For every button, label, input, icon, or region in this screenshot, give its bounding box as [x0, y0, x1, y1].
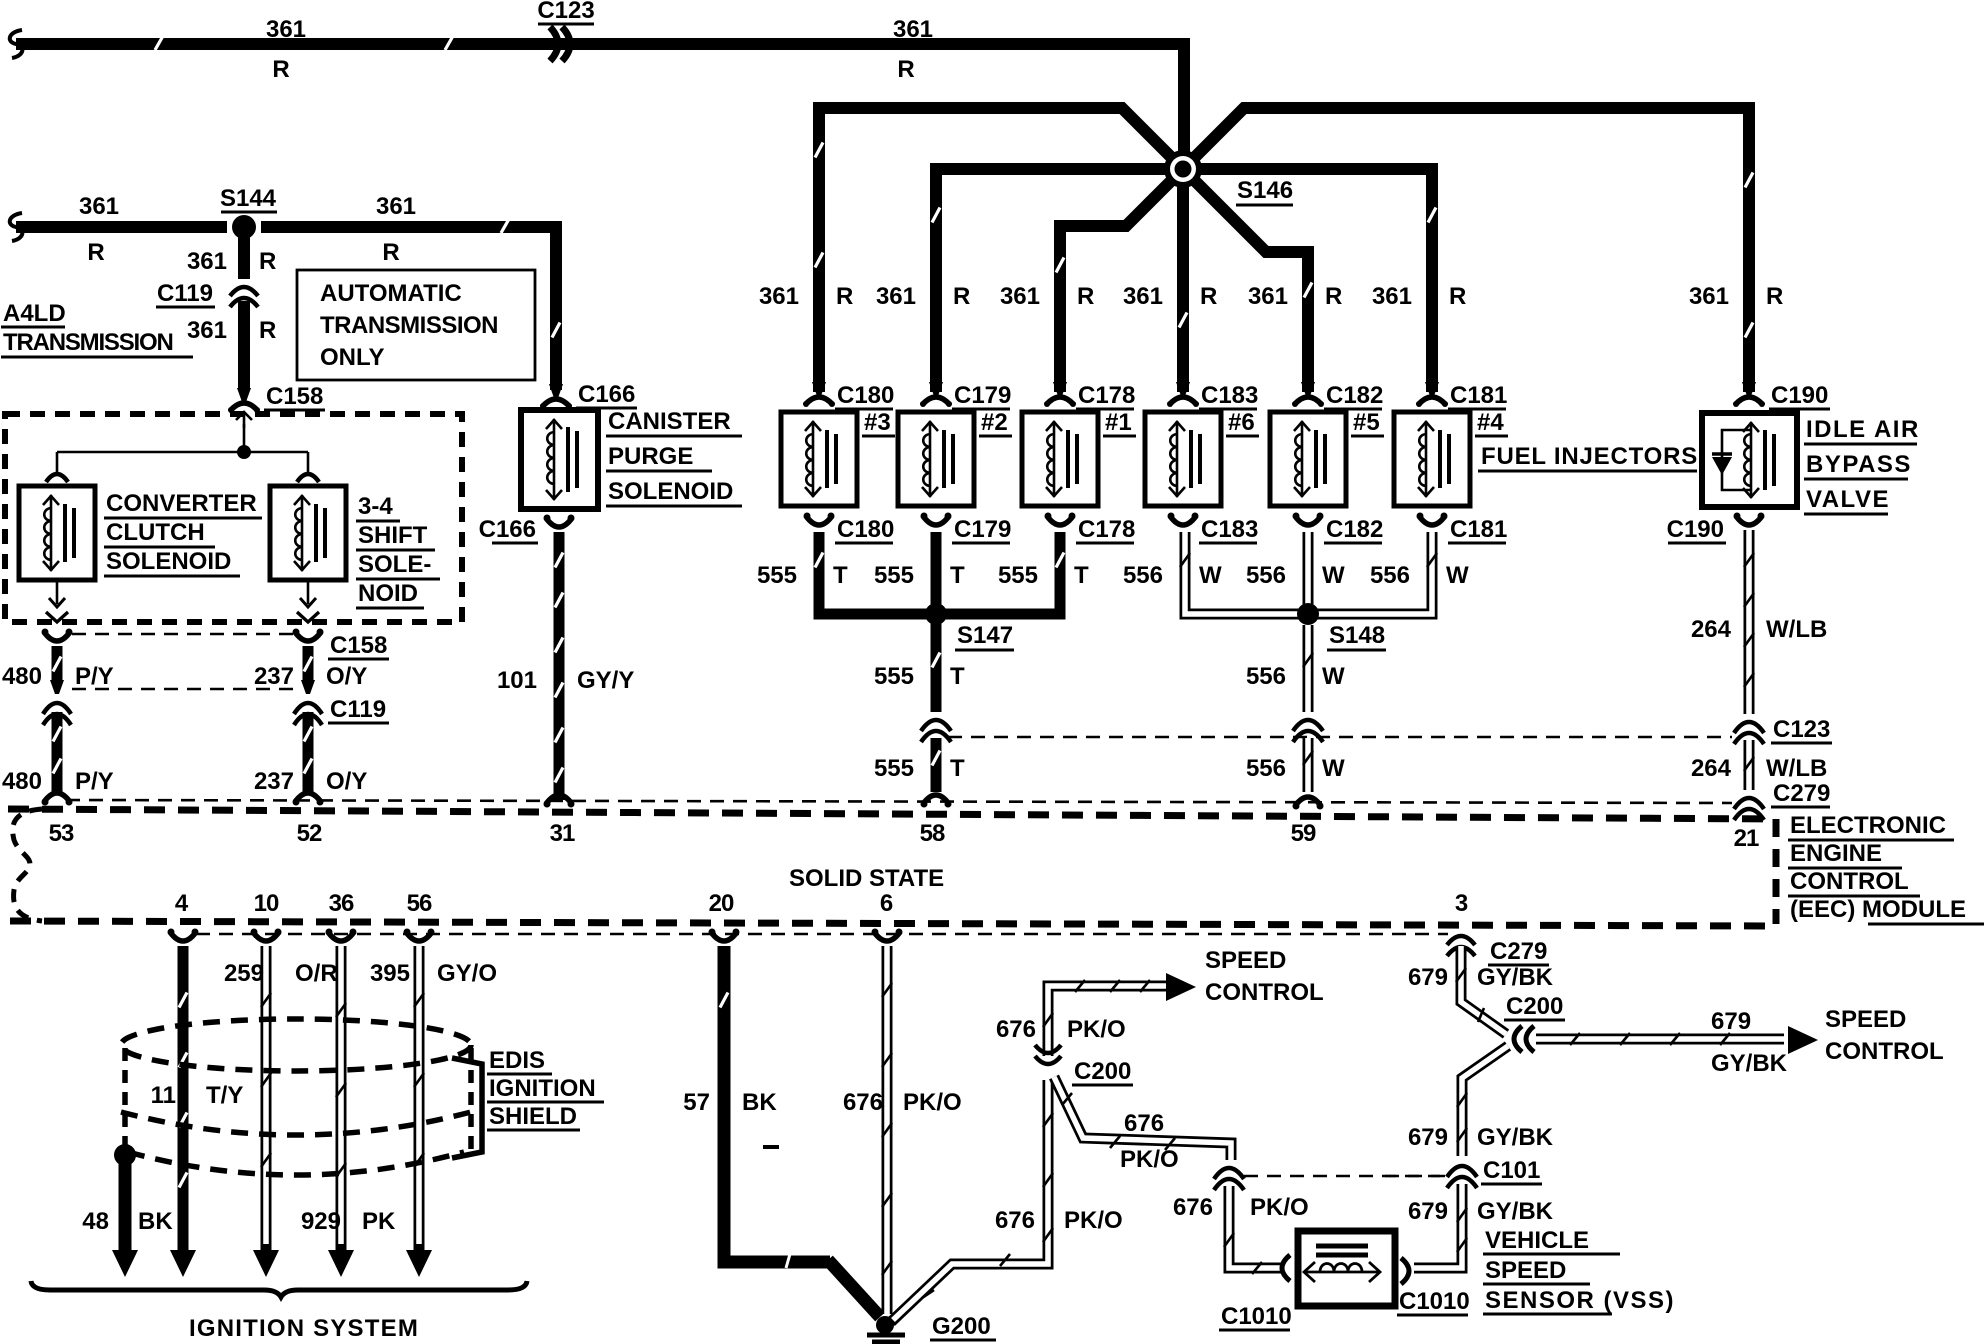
- label 929: [301, 1208, 341, 1235]
- label T mid: [950, 663, 965, 690]
- label TRANSMISSION (note): [320, 312, 498, 339]
- EDIS ignition shield top ellipse: [121, 1019, 471, 1071]
- wire 679 GY/BK from pin 3 to C200: [1456, 946, 1506, 1034]
- label S146: [1236, 177, 1293, 205]
- svg-text:237: 237: [254, 768, 294, 795]
- A4LD transmission dashed box: [5, 414, 462, 622]
- label 361 on drop #5d: [1248, 283, 1288, 310]
- label 556 mid: [1246, 663, 1286, 690]
- svg-text:C279: C279: [1773, 780, 1830, 807]
- label ONLY: [320, 344, 384, 371]
- label 361 on drop #3d: [759, 283, 799, 310]
- EDIS ignition shield right side: [468, 1048, 474, 1158]
- svg-text:G200: G200: [932, 1313, 991, 1340]
- connector at EEC pin 10: [251, 929, 282, 942]
- svg-text:264: 264: [1691, 755, 1732, 782]
- svg-text:101: 101: [497, 667, 537, 694]
- svg-text:T: T: [950, 663, 965, 690]
- svg-text:BK: BK: [138, 1208, 173, 1235]
- wire 556 bus (injectors 6-5-4): [1180, 532, 1437, 614]
- label SPEED (VSS): [1483, 1257, 1590, 1284]
- label #3 injector: [862, 409, 895, 436]
- label R right of S144: [382, 239, 399, 266]
- svg-text:T: T: [833, 562, 848, 589]
- svg-text:SHIELD: SHIELD: [489, 1103, 577, 1130]
- EEC module bottom border (dashed): [10, 921, 1776, 926]
- svg-text:3: 3: [1455, 890, 1468, 917]
- svg-text:556: 556: [1370, 562, 1410, 589]
- label 556 at x1185: [1123, 562, 1163, 589]
- svg-text:GY/Y: GY/Y: [577, 667, 634, 694]
- wire 361 R from C119 to C158: [238, 301, 250, 390]
- label #1 injector: [1103, 409, 1136, 436]
- wire S146 NW branch to injector #3: [815, 108, 1183, 392]
- arrow to speed control (middle): [1166, 973, 1196, 1001]
- canister purge solenoid box: [521, 410, 598, 509]
- svg-text:GY/BK: GY/BK: [1477, 964, 1554, 991]
- label 555 at x1060: [998, 562, 1038, 589]
- label R on drop #3d: [836, 283, 853, 310]
- wire 57 BK: [720, 946, 880, 1317]
- svg-text:679: 679: [1408, 1198, 1448, 1225]
- label C200 (middle): [1072, 1058, 1133, 1085]
- label GY/BK (upper): [1477, 964, 1554, 991]
- svg-text:C182: C182: [1326, 382, 1383, 409]
- svg-text:PK: PK: [362, 1208, 396, 1235]
- label C166 top: [576, 381, 637, 408]
- VSS internal bars: [1316, 1246, 1368, 1255]
- svg-text:C200: C200: [1074, 1058, 1131, 1085]
- label TRANSMISSION: [1, 329, 193, 357]
- svg-text:R: R: [1325, 283, 1342, 310]
- label C123 (top): [537, 0, 594, 24]
- connector C1010 left of VSS: [1282, 1255, 1290, 1281]
- svg-text:58: 58: [920, 820, 945, 847]
- connector C119 on 361 wire: [230, 287, 258, 307]
- wire 11 T/Y: [179, 946, 187, 1252]
- label 676 above G200 wire: [995, 1207, 1035, 1234]
- svg-text:361: 361: [187, 317, 227, 344]
- label SENSOR (VSS): [1483, 1287, 1675, 1314]
- svg-text:361: 361: [376, 193, 416, 220]
- wire 259 O/R: [261, 946, 271, 1252]
- svg-text:31: 31: [550, 820, 575, 847]
- connector C279 on wire 264: [1734, 798, 1764, 820]
- svg-text:R: R: [953, 283, 970, 310]
- svg-text:11: 11: [151, 1082, 176, 1109]
- connector C158 entering dashed box: [228, 388, 260, 428]
- svg-text:C190: C190: [1667, 516, 1724, 543]
- label C123 right: [1771, 716, 1832, 743]
- label pin 21: [1734, 825, 1759, 852]
- svg-text:R: R: [1449, 283, 1466, 310]
- label C183 bottom of injector #6: [1199, 516, 1258, 543]
- connector C158 below box left: [42, 629, 73, 642]
- label VEHICLE: [1483, 1227, 1620, 1254]
- connector C123 on wire 556: [1293, 720, 1323, 742]
- svg-text:555: 555: [757, 562, 797, 589]
- label (EEC) MODULE: [1790, 896, 1984, 924]
- label SOLID STATE: [789, 865, 944, 892]
- label R on drop #6d: [1200, 283, 1217, 310]
- label C178 top of injector #1: [1076, 382, 1135, 409]
- label P/Y lower: [75, 768, 114, 795]
- converter clutch solenoid box: [19, 486, 95, 580]
- svg-text:SOLE-: SOLE-: [358, 551, 431, 578]
- svg-text:C178: C178: [1078, 516, 1135, 543]
- fuel injector #6 coil: [1145, 412, 1221, 506]
- label SPEED (middle): [1205, 947, 1286, 974]
- wire 676 PK/O from pin 6 to ground: [882, 946, 892, 1314]
- svg-text:237: 237: [254, 663, 294, 690]
- connector C200 on 676 wire: [1035, 1045, 1061, 1064]
- ignition system brace: [31, 1281, 527, 1297]
- label P/Y upper: [75, 663, 114, 690]
- wire 676 PK/O from C101 to VSS: [1224, 1186, 1285, 1274]
- svg-text:361: 361: [79, 193, 119, 220]
- wire drop from top line to splice S146: [1178, 44, 1190, 169]
- arrow end of wire 259: [253, 1250, 279, 1277]
- svg-text:C182: C182: [1326, 516, 1383, 543]
- label pin 58: [920, 820, 945, 847]
- label W at x1308: [1322, 562, 1345, 589]
- label 361 left of S144: [79, 193, 119, 220]
- label T at x1060: [1074, 562, 1089, 589]
- EDIS ignition shield middle arc: [121, 1112, 471, 1135]
- svg-text:S146: S146: [1237, 177, 1293, 204]
- dashed line connector C158: [72, 633, 293, 636]
- svg-text:53: 53: [49, 820, 74, 847]
- label ELECTRONIC: [1788, 812, 1954, 840]
- 3-4 shift solenoid box: [270, 486, 346, 580]
- label G200: [930, 1313, 996, 1340]
- svg-text:O/R: O/R: [295, 960, 338, 987]
- label GY/O: [437, 960, 497, 987]
- connector C183 (bottom of injector #6): [1168, 513, 1199, 526]
- label 555 lower: [874, 755, 914, 782]
- idle air bypass valve diode: [1712, 430, 1751, 490]
- arrow end of wire 11: [170, 1250, 196, 1277]
- svg-text:R: R: [272, 56, 289, 83]
- svg-text:21: 21: [1734, 825, 1759, 852]
- wire 264 W/LB from C190 to C123: [1744, 530, 1754, 714]
- connector C182 (top of injector #5): [1292, 382, 1324, 407]
- note box AUTOMATIC TRANSMISSION ONLY: [297, 270, 535, 380]
- fuel injector #3 coil: [781, 412, 857, 506]
- idle air bypass valve coil and core: [1743, 422, 1774, 498]
- splice S148: [1297, 603, 1319, 625]
- label pin 59: [1291, 820, 1316, 847]
- svg-text:S148: S148: [1329, 622, 1385, 649]
- label C180 top of injector #3: [835, 382, 894, 409]
- wire 556 W from C123 to EEC pin 59: [1303, 738, 1313, 792]
- label 555 at x819: [757, 562, 797, 589]
- label 556 at x1308: [1246, 562, 1286, 589]
- label SOLENOID: [606, 478, 742, 506]
- svg-text:#4: #4: [1477, 409, 1504, 436]
- connector at EEC pin 36: [326, 929, 357, 942]
- svg-text:R: R: [897, 56, 914, 83]
- connector at EEC pin 52: [293, 793, 324, 806]
- svg-text:#6: #6: [1228, 409, 1255, 436]
- svg-text:SOLENOID: SOLENOID: [608, 478, 733, 505]
- svg-text:CLUTCH: CLUTCH: [106, 519, 205, 546]
- label 361 above C158: [187, 317, 227, 344]
- label C181 bottom of injector #4: [1448, 516, 1507, 543]
- label 264 lower: [1691, 755, 1732, 782]
- dashed connector line C279 (horizontal): [66, 800, 1732, 803]
- connector C178 (top of injector #1): [1044, 382, 1076, 407]
- label C166 bottom: [479, 516, 538, 543]
- svg-text:20: 20: [709, 890, 734, 917]
- label 101: [497, 667, 537, 694]
- label pin 53: [49, 820, 74, 847]
- connector at EEC pin 6: [872, 929, 903, 942]
- svg-text:R: R: [1200, 283, 1217, 310]
- svg-text:R: R: [259, 248, 276, 275]
- svg-text:C166: C166: [479, 516, 536, 543]
- label SOLE-: [356, 551, 440, 579]
- label 480 upper: [2, 663, 42, 690]
- label SPEED (right): [1825, 1006, 1906, 1033]
- label CLUTCH: [104, 519, 215, 547]
- svg-text:R: R: [87, 239, 104, 266]
- fuel injector #4 coil: [1394, 412, 1470, 506]
- ground G200 symbol: [867, 1335, 905, 1344]
- label W lower: [1322, 755, 1345, 782]
- label 679 (mid): [1408, 1124, 1448, 1151]
- svg-text:C158: C158: [266, 383, 323, 410]
- label pin 52: [297, 820, 322, 847]
- svg-text:GY/BK: GY/BK: [1477, 1198, 1554, 1225]
- label 679 above arrow wire: [1711, 1008, 1751, 1035]
- svg-text:4: 4: [175, 890, 189, 917]
- svg-text:W: W: [1322, 663, 1345, 690]
- svg-text:PK/O: PK/O: [1067, 1016, 1126, 1043]
- svg-text:SOLENOID: SOLENOID: [106, 548, 231, 575]
- wire 237 O/Y upper: [304, 646, 312, 680]
- svg-text:#3: #3: [864, 409, 891, 436]
- svg-text:56: 56: [407, 890, 432, 917]
- dashed line connector C119/C158 mid: [72, 688, 293, 691]
- label pin 36: [329, 890, 354, 917]
- svg-text:ELECTRONIC: ELECTRONIC: [1790, 812, 1946, 839]
- wire junction inside A4LD box: [57, 424, 308, 459]
- label 361 on top wire: [266, 16, 306, 43]
- label R on drop #2d: [953, 283, 970, 310]
- label C180 bottom of injector #3: [835, 516, 894, 543]
- svg-text:676: 676: [1124, 1110, 1164, 1137]
- dashed connector line C123 (horizontal): [948, 736, 1732, 739]
- connector C123 inline on top wire: [550, 27, 570, 61]
- label 361 right of S144: [376, 193, 416, 220]
- label 679 (upper): [1408, 964, 1448, 991]
- svg-text:556: 556: [1123, 562, 1163, 589]
- splice S147: [925, 603, 947, 625]
- svg-text:R: R: [1766, 283, 1783, 310]
- connector C179 (bottom of injector #2): [921, 513, 952, 526]
- label R on top wire: [272, 56, 289, 83]
- wire 361 R power feed (top horizontal): [16, 36, 1250, 50]
- connector at EEC pin 3: [1447, 936, 1475, 956]
- label VALVE: [1804, 486, 1890, 514]
- svg-text:C123: C123: [1773, 716, 1830, 743]
- svg-text:SENSOR (VSS): SENSOR (VSS): [1485, 1287, 1675, 1314]
- label IGNITION SYSTEM: [189, 1315, 419, 1342]
- label R above C119: [259, 248, 276, 275]
- svg-text:57: 57: [683, 1089, 710, 1116]
- svg-text:C180: C180: [837, 516, 894, 543]
- svg-text:361: 361: [1123, 283, 1163, 310]
- fuel injector #2 coil: [898, 412, 974, 506]
- wire break squiggle left end of top line: [10, 30, 23, 58]
- svg-text:IDLE AIR: IDLE AIR: [1806, 416, 1920, 443]
- label S147: [955, 622, 1014, 650]
- label C179 top of injector #2: [952, 382, 1011, 409]
- svg-text:C119: C119: [157, 280, 213, 307]
- svg-text:IGNITION SYSTEM: IGNITION SYSTEM: [189, 1315, 419, 1342]
- wire 264 W/LB from C123 to C279: [1744, 740, 1754, 790]
- svg-text:R: R: [259, 317, 276, 344]
- label C183 top of injector #6: [1199, 382, 1258, 409]
- idle air bypass valve box: [1702, 413, 1797, 507]
- label 361 on drop #2d: [876, 283, 916, 310]
- label pin 6: [880, 890, 893, 917]
- svg-text:361: 361: [1372, 283, 1412, 310]
- wire branch to converter clutch solenoid: [46, 452, 68, 482]
- svg-text:P/Y: P/Y: [75, 663, 114, 690]
- svg-text:679: 679: [1408, 1124, 1448, 1151]
- label 361 on drop #6d: [1123, 283, 1163, 310]
- label 11: [151, 1082, 176, 1109]
- connector C183 (top of injector #6): [1167, 382, 1199, 407]
- wire converter clutch solenoid to C158 boundary: [46, 580, 68, 622]
- label C158 top: [264, 383, 325, 410]
- svg-text:VEHICLE: VEHICLE: [1485, 1227, 1589, 1254]
- label C178 bottom of injector #1: [1076, 516, 1135, 543]
- svg-text:480: 480: [2, 663, 42, 690]
- wire 679 GY/BK from C101 to VSS: [1414, 1184, 1467, 1268]
- wire S146 E branch to injector #4: [1183, 169, 1436, 392]
- label PURGE: [606, 443, 712, 471]
- dashed line connector C101 right part: [1385, 1175, 1448, 1178]
- label 556 lower: [1246, 755, 1286, 782]
- label 676 above diagonal: [1124, 1110, 1164, 1137]
- label C279 right section: [1488, 938, 1549, 965]
- svg-text:BK: BK: [742, 1089, 777, 1116]
- svg-text:W: W: [1199, 562, 1222, 589]
- svg-text:480: 480: [2, 768, 42, 795]
- label CONVERTER: [104, 490, 262, 518]
- label 48: [82, 1208, 109, 1235]
- svg-text:T: T: [950, 562, 965, 589]
- label 259: [224, 960, 264, 987]
- label PK/O below diagonal: [1120, 1146, 1179, 1173]
- label C182 bottom of injector #5: [1324, 516, 1383, 543]
- label T/Y: [206, 1082, 243, 1109]
- connector at EEC pin 4: [168, 929, 199, 942]
- connector C101 on 679 wire: [1447, 1166, 1477, 1188]
- label 237 upper: [254, 663, 294, 690]
- svg-text:C1010: C1010: [1221, 1303, 1292, 1330]
- svg-text:S147: S147: [957, 622, 1013, 649]
- label 556 at x1432: [1370, 562, 1410, 589]
- svg-text:S144: S144: [220, 185, 277, 212]
- label 361 above C119: [187, 248, 227, 275]
- label C182 top of injector #5: [1324, 382, 1383, 409]
- connector C181 (bottom of injector #4): [1417, 513, 1448, 526]
- label W at x1185: [1199, 562, 1222, 589]
- wire 555 T from S147 to C123: [932, 614, 940, 712]
- svg-text:929: 929: [301, 1208, 341, 1235]
- label NOID: [356, 580, 424, 608]
- label pin 10: [254, 890, 279, 917]
- label #6 injector: [1226, 409, 1259, 436]
- stray dash mark: [763, 1145, 779, 1149]
- label FUEL INJECTORS: [1478, 443, 1698, 471]
- wire 395 GY/O: [414, 946, 424, 1252]
- EEC module top border (dashed): [8, 809, 1776, 819]
- svg-text:676: 676: [1173, 1194, 1213, 1221]
- svg-text:C183: C183: [1201, 382, 1258, 409]
- svg-text:PK/O: PK/O: [1120, 1146, 1179, 1173]
- svg-text:555: 555: [874, 562, 914, 589]
- svg-text:C200: C200: [1506, 993, 1563, 1020]
- svg-text:361: 361: [266, 16, 306, 43]
- svg-text:CONVERTER: CONVERTER: [106, 490, 257, 517]
- connector C180 (top of injector #3): [803, 382, 835, 407]
- label PK/O on pin 6 wire: [903, 1089, 962, 1116]
- svg-text:361: 361: [893, 16, 933, 43]
- label PK: [362, 1208, 396, 1235]
- label C119: [156, 280, 215, 307]
- svg-text:AUTOMATIC: AUTOMATIC: [320, 280, 462, 307]
- splice S146: [1164, 150, 1202, 188]
- label GY/BK (mid): [1477, 1124, 1554, 1151]
- connector C190 (top of idle air bypass valve): [1733, 382, 1765, 407]
- label GY/BK (lower): [1477, 1198, 1554, 1225]
- label C1010 right: [1397, 1288, 1470, 1315]
- label 361 on drop IABd: [1689, 283, 1729, 310]
- svg-text:C190: C190: [1771, 382, 1828, 409]
- svg-text:(EEC) MODULE: (EEC) MODULE: [1790, 896, 1966, 923]
- svg-text:GY/O: GY/O: [437, 960, 497, 987]
- label W/LB lower: [1766, 755, 1827, 782]
- label C200 right section: [1504, 993, 1565, 1020]
- connector C1010 right of VSS: [1401, 1258, 1409, 1284]
- label BYPASS: [1804, 451, 1912, 479]
- svg-text:C179: C179: [954, 382, 1011, 409]
- svg-text:EDIS: EDIS: [489, 1047, 545, 1074]
- svg-text:T/Y: T/Y: [206, 1082, 243, 1109]
- svg-text:C1010: C1010: [1399, 1288, 1470, 1315]
- EEC module left border curl (dashed): [13, 809, 42, 921]
- wire 679 GY/BK to speed control arrow: [1536, 1033, 1784, 1045]
- label W mid: [1322, 663, 1345, 690]
- svg-text:361: 361: [1248, 283, 1288, 310]
- arrow to speed control (right): [1788, 1026, 1818, 1054]
- label R on drop #5d: [1325, 283, 1342, 310]
- svg-text:C180: C180: [837, 382, 894, 409]
- svg-text:C179: C179: [954, 516, 1011, 543]
- svg-text:NOID: NOID: [358, 580, 418, 607]
- label T at x936: [950, 562, 965, 589]
- svg-text:R: R: [382, 239, 399, 266]
- label 679 (lower): [1408, 1198, 1448, 1225]
- svg-text:SPEED: SPEED: [1205, 947, 1286, 974]
- connector C101 on 676 wire: [1214, 1168, 1244, 1190]
- label R on drop IABd: [1766, 283, 1783, 310]
